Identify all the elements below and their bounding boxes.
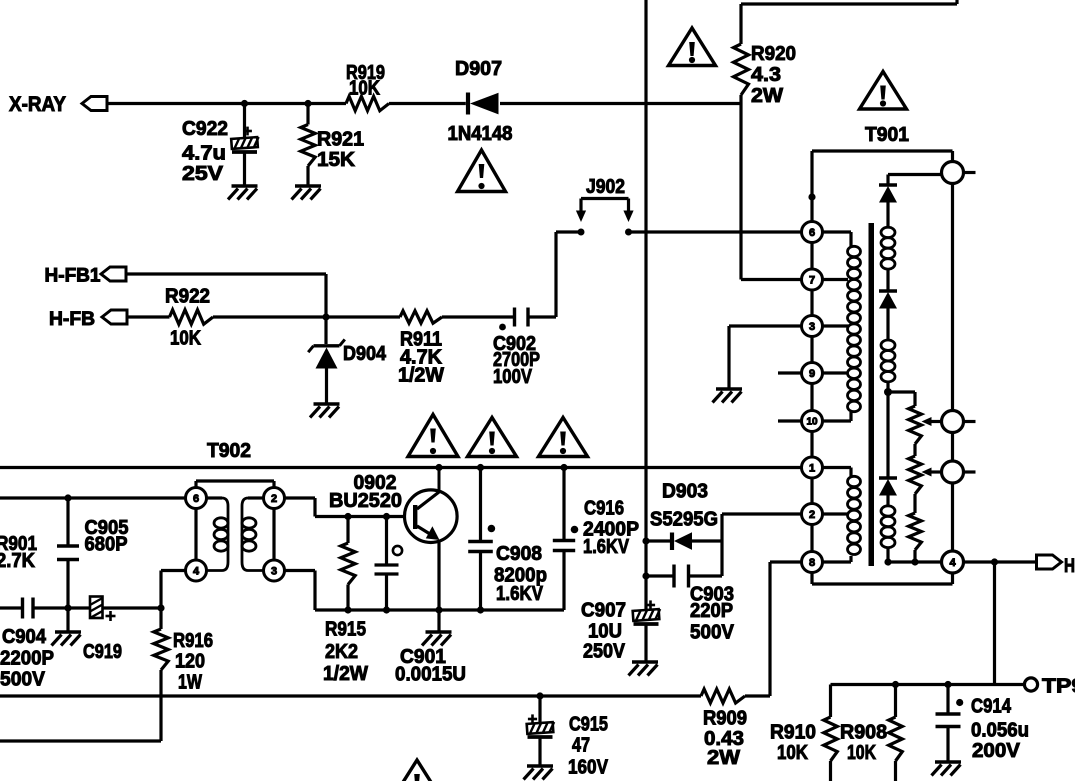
svg-text:R908: R908 — [840, 722, 887, 744]
svg-text:10K: 10K — [847, 742, 876, 764]
svg-text:4.7u: 4.7u — [182, 143, 226, 165]
svg-text:D907: D907 — [455, 58, 502, 80]
svg-text:2W: 2W — [707, 747, 740, 769]
svg-text:BU2520: BU2520 — [329, 490, 402, 512]
svg-text:10: 10 — [806, 417, 818, 428]
svg-text:S5295G: S5295G — [650, 509, 718, 531]
svg-text:C922: C922 — [182, 118, 228, 140]
svg-text:10K: 10K — [170, 328, 201, 350]
svg-text:1.6KV: 1.6KV — [496, 583, 544, 605]
svg-text:C919: C919 — [83, 641, 122, 663]
svg-text:100V: 100V — [493, 366, 533, 388]
svg-text:D904: D904 — [343, 343, 387, 365]
svg-text:120: 120 — [175, 651, 205, 673]
svg-text:T902: T902 — [207, 440, 251, 462]
svg-text:6: 6 — [193, 493, 199, 505]
svg-text:R916: R916 — [173, 630, 213, 652]
svg-text:R920: R920 — [751, 43, 796, 65]
svg-text:D903: D903 — [662, 481, 708, 503]
svg-text:2: 2 — [271, 493, 277, 505]
svg-text:2K2: 2K2 — [325, 641, 358, 663]
svg-text:10U: 10U — [588, 621, 622, 643]
svg-text:0.056u: 0.056u — [971, 720, 1029, 742]
svg-text:4: 4 — [949, 557, 956, 569]
svg-text:T901: T901 — [865, 124, 909, 146]
svg-text:H-FB: H-FB — [49, 309, 95, 330]
svg-text:7: 7 — [809, 274, 815, 286]
svg-text:1/2W: 1/2W — [398, 365, 444, 387]
svg-text:1N4148: 1N4148 — [448, 123, 513, 145]
svg-text:1: 1 — [809, 462, 815, 474]
svg-text:250V: 250V — [583, 641, 626, 663]
svg-text:TP90: TP90 — [1042, 676, 1075, 698]
svg-text:R921: R921 — [317, 129, 364, 151]
svg-text:C916: C916 — [584, 498, 624, 520]
svg-text:9: 9 — [809, 368, 815, 380]
svg-text:4.3: 4.3 — [751, 64, 781, 86]
svg-text:6: 6 — [809, 227, 815, 239]
svg-text:R909: R909 — [703, 708, 747, 730]
svg-text:C914: C914 — [971, 696, 1012, 718]
svg-text:2W: 2W — [751, 85, 783, 107]
svg-text:47: 47 — [572, 735, 590, 757]
svg-text:2200P: 2200P — [0, 648, 54, 670]
svg-text:C915: C915 — [569, 714, 608, 736]
svg-text:C907: C907 — [581, 600, 626, 622]
svg-text:25V: 25V — [182, 163, 224, 185]
svg-text:0.0015U: 0.0015U — [395, 664, 466, 686]
svg-text:C908: C908 — [496, 543, 542, 565]
svg-text:H-FB1: H-FB1 — [45, 266, 101, 287]
svg-text:H: H — [1064, 556, 1075, 577]
svg-text:1/2W: 1/2W — [323, 663, 368, 685]
svg-text:500V: 500V — [0, 669, 46, 691]
svg-text:500V: 500V — [690, 622, 735, 644]
svg-text:8: 8 — [809, 557, 815, 569]
svg-text:2: 2 — [809, 509, 815, 521]
svg-text:220P: 220P — [690, 600, 733, 622]
svg-text:10K: 10K — [349, 78, 380, 100]
svg-text:J902: J902 — [586, 176, 625, 198]
svg-text:3: 3 — [271, 565, 277, 577]
svg-text:4: 4 — [193, 565, 200, 577]
svg-text:R915: R915 — [325, 619, 366, 641]
svg-text:C904: C904 — [2, 626, 47, 648]
svg-text:1.6KV: 1.6KV — [583, 536, 630, 558]
svg-text:R922: R922 — [165, 286, 210, 308]
svg-text:X-RAY: X-RAY — [9, 93, 66, 116]
svg-text:R910: R910 — [770, 722, 816, 744]
svg-text:680P: 680P — [85, 534, 128, 556]
svg-text:200V: 200V — [972, 740, 1021, 762]
svg-text:10K: 10K — [777, 742, 808, 764]
svg-text:160V: 160V — [568, 757, 609, 779]
svg-text:3: 3 — [809, 321, 815, 333]
svg-text:2.7K: 2.7K — [0, 550, 36, 572]
svg-text:1W: 1W — [178, 672, 202, 694]
svg-text:15K: 15K — [317, 149, 356, 171]
